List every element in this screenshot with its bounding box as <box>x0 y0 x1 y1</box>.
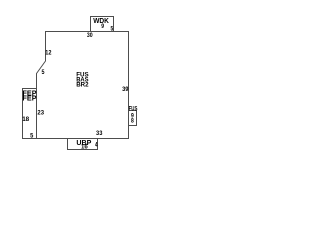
svg-text:18: 18 <box>22 116 29 123</box>
svg-text:5: 5 <box>111 25 114 32</box>
svg-text:39: 39 <box>122 86 129 93</box>
svg-text:BR2: BR2 <box>76 82 89 89</box>
svg-text:12: 12 <box>45 49 51 56</box>
svg-text:23: 23 <box>37 110 44 117</box>
svg-text:30: 30 <box>87 32 93 39</box>
svg-text:16: 16 <box>81 143 88 150</box>
svg-text:9: 9 <box>101 23 104 30</box>
svg-text:8: 8 <box>131 117 134 124</box>
svg-text:5: 5 <box>30 133 33 140</box>
svg-text:33: 33 <box>96 130 103 137</box>
svg-text:5: 5 <box>42 69 45 76</box>
svg-text:FEP: FEP <box>23 96 37 103</box>
svg-text:4: 4 <box>95 142 98 149</box>
